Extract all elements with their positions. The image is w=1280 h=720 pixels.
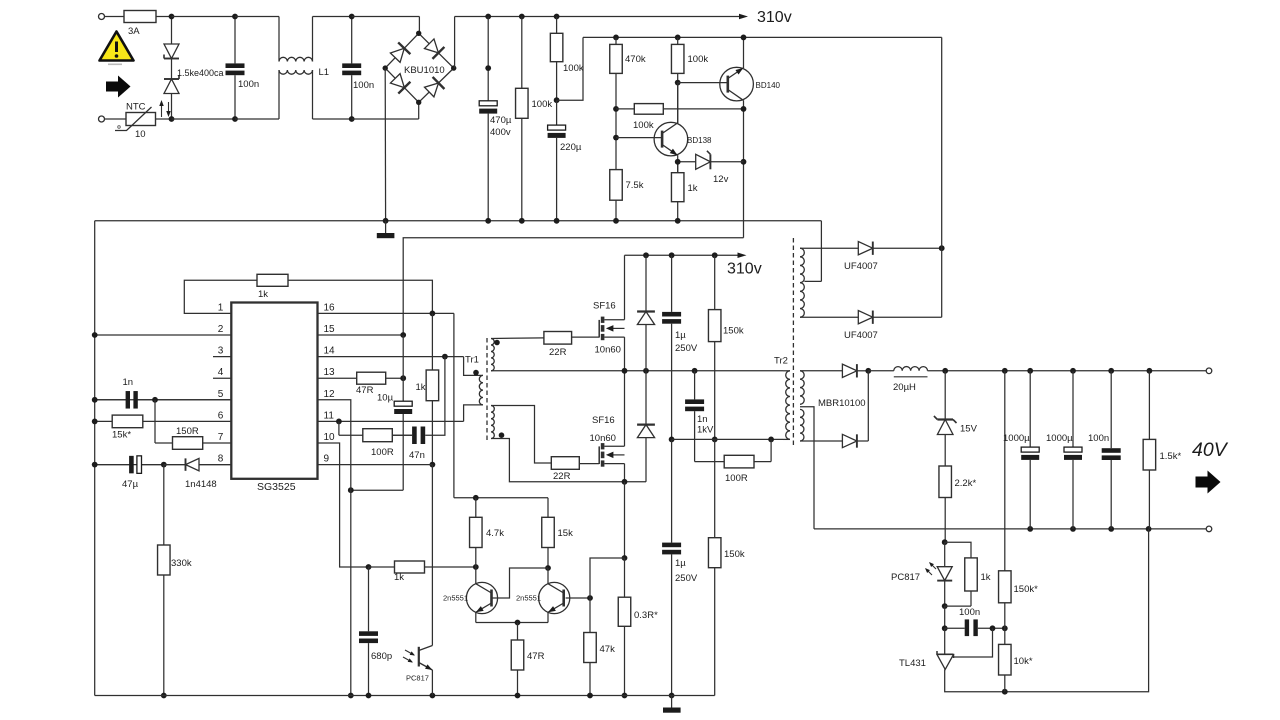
svg-text:2n5551: 2n5551 — [516, 594, 541, 603]
svg-text:12v: 12v — [713, 174, 729, 185]
svg-text:KBU1010: KBU1010 — [404, 65, 445, 76]
svg-text:16: 16 — [324, 302, 336, 313]
svg-text:100n: 100n — [353, 80, 374, 91]
svg-text:1µ: 1µ — [675, 558, 686, 569]
svg-text:1k: 1k — [688, 183, 698, 194]
svg-text:13: 13 — [324, 367, 336, 378]
svg-text:1µ: 1µ — [675, 330, 686, 341]
svg-text:470µ: 470µ — [490, 115, 512, 126]
svg-text:20µH: 20µH — [893, 382, 916, 393]
svg-text:TL431: TL431 — [899, 658, 926, 669]
svg-text:10k*: 10k* — [1014, 656, 1033, 667]
svg-text:100k: 100k — [688, 54, 709, 65]
svg-text:100k: 100k — [633, 120, 654, 131]
svg-text:310v: 310v — [727, 261, 762, 278]
svg-text:150R: 150R — [176, 426, 199, 437]
svg-text:100R: 100R — [725, 473, 748, 484]
svg-text:2.2k*: 2.2k* — [955, 478, 977, 489]
svg-text:10µ: 10µ — [377, 393, 394, 404]
svg-text:7: 7 — [218, 432, 224, 443]
svg-text:1n: 1n — [697, 414, 708, 425]
svg-text:SF16: SF16 — [593, 301, 616, 312]
svg-text:5: 5 — [218, 389, 224, 400]
svg-text:15: 15 — [324, 324, 336, 335]
svg-text:310v: 310v — [757, 9, 792, 26]
svg-text:3: 3 — [218, 346, 224, 357]
svg-text:150k*: 150k* — [1014, 584, 1039, 595]
svg-text:BD140: BD140 — [756, 81, 781, 90]
svg-text:1k: 1k — [394, 572, 404, 583]
svg-text:4.7k: 4.7k — [486, 528, 504, 539]
svg-text:100n: 100n — [238, 79, 259, 90]
svg-text:22R: 22R — [549, 347, 567, 358]
svg-text:1k: 1k — [258, 289, 268, 300]
svg-text:Tr2: Tr2 — [774, 356, 788, 367]
svg-text:150k: 150k — [724, 549, 745, 560]
svg-text:1.5k*: 1.5k* — [1160, 451, 1182, 462]
svg-text:UF4007: UF4007 — [844, 330, 878, 341]
svg-text:1k: 1k — [416, 382, 426, 393]
svg-text:6: 6 — [218, 410, 224, 421]
svg-text:47R: 47R — [356, 385, 374, 396]
svg-text:0.3R*: 0.3R* — [634, 610, 658, 621]
svg-text:10n60: 10n60 — [590, 433, 616, 444]
svg-text:100R: 100R — [371, 447, 394, 458]
svg-text:PC817: PC817 — [891, 572, 920, 583]
svg-text:1.5ke400ca: 1.5ke400ca — [177, 68, 224, 78]
svg-text:BD138: BD138 — [687, 136, 712, 145]
svg-text:MBR10100: MBR10100 — [818, 398, 866, 409]
svg-text:2n5551: 2n5551 — [443, 594, 468, 603]
svg-text:40V: 40V — [1192, 439, 1229, 461]
svg-text:220µ: 220µ — [560, 142, 582, 153]
svg-text:330k: 330k — [171, 558, 192, 569]
svg-text:UF4007: UF4007 — [844, 261, 878, 272]
svg-text:47µ: 47µ — [122, 479, 139, 490]
svg-text:PC817: PC817 — [406, 674, 429, 683]
svg-text:L1: L1 — [319, 67, 330, 78]
svg-text:100k: 100k — [563, 63, 584, 74]
svg-text:100n: 100n — [1088, 433, 1109, 444]
svg-text:22R: 22R — [553, 471, 571, 482]
svg-text:250V: 250V — [675, 343, 698, 354]
svg-text:250V: 250V — [675, 573, 698, 584]
svg-text:47R: 47R — [527, 651, 545, 662]
svg-text:SF16: SF16 — [592, 415, 615, 426]
svg-text:470k: 470k — [625, 54, 646, 65]
svg-text:11: 11 — [324, 410, 335, 421]
svg-text:9: 9 — [324, 454, 330, 465]
svg-text:1n4148: 1n4148 — [185, 479, 217, 490]
svg-text:14: 14 — [324, 346, 336, 357]
svg-text:100n: 100n — [959, 607, 980, 618]
svg-text:47n: 47n — [409, 450, 425, 461]
svg-text:Tr1: Tr1 — [465, 355, 479, 366]
svg-text:10: 10 — [135, 129, 146, 140]
svg-text:8: 8 — [218, 454, 224, 465]
svg-text:15k: 15k — [558, 528, 574, 539]
svg-text:1k: 1k — [981, 572, 991, 583]
svg-text:680p: 680p — [371, 651, 392, 662]
svg-text:2: 2 — [218, 324, 224, 335]
svg-text:1000µ: 1000µ — [1046, 433, 1073, 444]
svg-text:10: 10 — [324, 432, 336, 443]
svg-text:7.5k: 7.5k — [626, 180, 644, 191]
svg-text:12: 12 — [324, 389, 336, 400]
svg-text:150k: 150k — [723, 326, 744, 337]
svg-text:10n60: 10n60 — [595, 345, 621, 356]
svg-text:NTC: NTC — [126, 102, 146, 113]
svg-text:1: 1 — [218, 302, 224, 313]
svg-text:15V: 15V — [960, 424, 978, 435]
svg-text:4: 4 — [218, 367, 224, 378]
svg-text:400v: 400v — [490, 127, 511, 138]
svg-text:1000µ: 1000µ — [1003, 433, 1030, 444]
svg-text:1n: 1n — [123, 377, 134, 388]
svg-text:47k: 47k — [600, 644, 616, 655]
svg-text:15k*: 15k* — [112, 430, 131, 441]
svg-text:3A: 3A — [128, 26, 140, 37]
svg-text:100k: 100k — [532, 99, 553, 110]
svg-text:SG3525: SG3525 — [257, 481, 296, 493]
svg-text:1kV: 1kV — [697, 425, 714, 436]
